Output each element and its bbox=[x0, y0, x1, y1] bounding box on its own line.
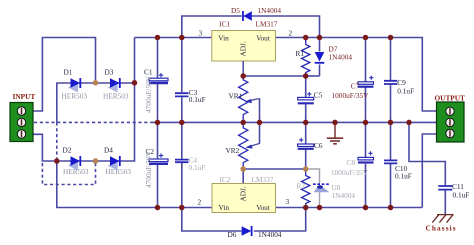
node bridge positive / D3 cathode bbox=[132, 80, 138, 86]
capacitor C1 4700uF/50V bbox=[149, 73, 168, 83]
svg-text:HER503: HER503 bbox=[103, 92, 129, 101]
svg-text:R1: R1 bbox=[296, 49, 305, 58]
wire negative rail left bbox=[57, 161, 212, 208]
node D2 anode / AC2 bbox=[54, 158, 60, 164]
wire C4 leads bbox=[181, 122, 183, 207]
resistor R2 bbox=[302, 169, 310, 208]
svg-text:0.1uF: 0.1uF bbox=[189, 95, 206, 104]
node ADJ1 / R1 / C5 bbox=[303, 73, 309, 79]
svg-text:D2: D2 bbox=[63, 146, 72, 155]
node -V rail / R2 / D6 bbox=[303, 205, 309, 211]
node -V rail / C2 bbox=[155, 205, 161, 211]
node ADJ2 / VR2 / IC2 ADJ bbox=[240, 166, 246, 172]
svg-text:R2: R2 bbox=[297, 181, 306, 190]
svg-text:D3: D3 bbox=[105, 67, 114, 76]
wire C2 leads bbox=[157, 122, 159, 207]
wire D1 anode vertical solid bbox=[56, 83, 58, 123]
svg-text:IC1: IC1 bbox=[219, 20, 230, 29]
node Vout rail / D5 / D7 bbox=[317, 35, 323, 41]
wire D6 loop bbox=[182, 208, 306, 232]
svg-text:C6: C6 bbox=[314, 141, 323, 150]
wire D7 leads bbox=[319, 38, 321, 77]
resistor R1 bbox=[302, 38, 310, 76]
svg-text:3: 3 bbox=[199, 29, 203, 38]
svg-text:C5: C5 bbox=[314, 91, 323, 100]
IC U1 LM317 box bbox=[212, 31, 276, 77]
svg-text:4700uF/50V: 4700uF/50V bbox=[144, 150, 153, 188]
svg-text:Vout: Vout bbox=[256, 34, 270, 43]
svg-text:0.1uF: 0.1uF bbox=[189, 163, 206, 172]
wire AC1 input top to bridge mid bbox=[33, 38, 96, 112]
capacitor C2 4700uF/50V bbox=[149, 153, 168, 163]
svg-text:HER503: HER503 bbox=[106, 167, 132, 176]
node ADJ1 / VR1 bbox=[240, 73, 246, 79]
node 0V / C1 / C2 bbox=[155, 120, 161, 126]
wire IC2 ADJ pin bbox=[242, 169, 244, 184]
capacitor C4 0.1uF bbox=[175, 160, 189, 163]
wire VR wiper vertical bbox=[259, 99, 261, 144]
connector J2 OUTPUT bbox=[437, 102, 465, 142]
svg-text:1N4004: 1N4004 bbox=[332, 191, 356, 200]
svg-text:Vin: Vin bbox=[219, 203, 230, 212]
node 0V / ground bbox=[332, 120, 338, 126]
diode D5 1N4004 bbox=[243, 11, 252, 21]
wire C7 leads bbox=[365, 38, 367, 123]
svg-text:0.1uF: 0.1uF bbox=[395, 171, 412, 180]
node 0V / C7 / C8 bbox=[363, 120, 369, 126]
svg-text:1N4004: 1N4004 bbox=[258, 6, 282, 15]
svg-text:D4: D4 bbox=[104, 146, 113, 155]
wire C3 leads bbox=[181, 38, 183, 123]
svg-text:C8: C8 bbox=[347, 158, 356, 167]
svg-text:3: 3 bbox=[286, 197, 290, 206]
wire Vin line bbox=[135, 37, 212, 39]
capacitor C11 0.1uF bbox=[438, 186, 452, 190]
chassis symbol bbox=[432, 215, 453, 223]
wire bridge positive vertical bbox=[121, 38, 135, 162]
wire negative rail right bbox=[276, 207, 423, 209]
node -V rail / C10 bbox=[388, 205, 394, 211]
capacitor C7 1000uF/35V bbox=[358, 76, 374, 87]
svg-text:ADJ.: ADJ. bbox=[239, 186, 248, 201]
node Vout rail / R1 bbox=[303, 35, 309, 41]
node Vout rail / C9 bbox=[388, 35, 394, 41]
svg-text:4700uF/50V: 4700uF/50V bbox=[144, 75, 153, 113]
svg-text:1N4004: 1N4004 bbox=[329, 52, 353, 61]
wire AC2 input bottom to D2 anode bbox=[33, 134, 54, 161]
node 0V / C11 branch bbox=[406, 120, 412, 126]
node ADJ2 / C6 / R2 bbox=[303, 166, 309, 172]
ground symbol bbox=[327, 122, 343, 143]
svg-text:LM317: LM317 bbox=[256, 20, 278, 29]
node Vout rail / C7 bbox=[363, 35, 369, 41]
svg-text:Chassis: Chassis bbox=[426, 224, 457, 233]
node 0V / C9 / C10 bbox=[388, 120, 394, 126]
IC U2 LM337 box bbox=[212, 184, 276, 213]
connector J1 INPUT bbox=[10, 103, 33, 142]
svg-text:LM337: LM337 bbox=[252, 175, 274, 184]
wire C9 leads bbox=[390, 38, 392, 123]
node 0V / C5 / C6 bbox=[303, 120, 309, 126]
svg-text:D5: D5 bbox=[231, 6, 240, 15]
svg-text:C7: C7 bbox=[351, 81, 360, 90]
potentiometer VR1 bbox=[239, 76, 260, 122]
svg-text:0.1uF: 0.1uF bbox=[397, 87, 414, 96]
capacitor C8 1000uF/35V bbox=[358, 151, 374, 162]
wire C6 leads bbox=[305, 122, 307, 169]
capacitor C10 0.1uF bbox=[384, 160, 397, 163]
diode D6 1N4004 bbox=[242, 226, 252, 236]
node 0V / VR1 / VR2 bbox=[240, 120, 246, 126]
svg-text:D1: D1 bbox=[64, 67, 73, 76]
svg-text:HER503: HER503 bbox=[63, 167, 89, 176]
wire C1 leads bbox=[157, 38, 159, 123]
capacitor C9 0.1uF bbox=[384, 81, 397, 84]
wire dashed vertical to D2 anode bbox=[56, 122, 58, 158]
svg-text:VR2: VR2 bbox=[226, 146, 240, 155]
capacitor C3 0.1uF bbox=[175, 93, 189, 96]
svg-text:2: 2 bbox=[289, 29, 293, 38]
svg-text:IC2: IC2 bbox=[220, 175, 231, 184]
node Vin rail / C1 bbox=[155, 35, 161, 41]
wire dashed bridge bypass bbox=[42, 163, 95, 185]
wire ADJ2 line bbox=[243, 168, 306, 170]
wire center-tap dashed bbox=[34, 121, 150, 123]
node -V rail / C8 bbox=[363, 205, 369, 211]
node -V rail / C4 / D6 bbox=[179, 205, 185, 211]
svg-text:VR1: VR1 bbox=[229, 92, 243, 101]
diode D1 HER503 bbox=[57, 78, 96, 92]
svg-text:ADJ.: ADJ. bbox=[239, 41, 248, 56]
svg-text:Vout: Vout bbox=[256, 203, 270, 212]
wire C8 leads bbox=[365, 122, 367, 207]
svg-text:2: 2 bbox=[198, 198, 202, 207]
svg-text:D6: D6 bbox=[228, 230, 237, 239]
diode D4 HER503 bbox=[96, 156, 121, 170]
svg-text:1N4004: 1N4004 bbox=[258, 230, 282, 239]
wire 0V rail bbox=[150, 121, 437, 123]
svg-text:Vin: Vin bbox=[218, 34, 229, 43]
svg-text:OUTPUT: OUTPUT bbox=[435, 93, 466, 102]
wire Vout line to output pin1 bbox=[276, 38, 437, 112]
capacitor C6 bbox=[298, 138, 314, 149]
wire C5 leads bbox=[305, 76, 307, 122]
potentiometer VR2 bbox=[239, 122, 260, 169]
node Vin rail / C3 / D5 bbox=[179, 35, 185, 41]
wire D5 top rail bbox=[182, 16, 320, 38]
wire ADJ1 line bbox=[243, 75, 306, 77]
svg-text:HER503: HER503 bbox=[62, 92, 88, 101]
node D1 cathode / D3 anode / AC1 bbox=[93, 80, 99, 86]
node 0V / wipers bbox=[257, 120, 263, 126]
svg-text:1000uF/35V: 1000uF/35V bbox=[331, 168, 369, 177]
svg-text:1000uF/35V: 1000uF/35V bbox=[332, 91, 370, 100]
diode D3 HER503 bbox=[96, 78, 135, 92]
node -V rail / U8 bbox=[317, 205, 323, 211]
diode U8 ghost 1N4004 bbox=[313, 184, 330, 192]
wire ADJ1 to D7 bbox=[306, 75, 320, 77]
wire C10 leads bbox=[390, 122, 392, 207]
wire ghost ADJ2 to U8 bbox=[306, 169, 320, 208]
svg-text:INPUT: INPUT bbox=[13, 92, 36, 101]
diode D2 HER503 bbox=[57, 156, 96, 170]
diode D7 1N4004 bbox=[315, 52, 325, 63]
svg-text:0.1uF: 0.1uF bbox=[453, 191, 470, 200]
svg-text:C1: C1 bbox=[144, 67, 153, 76]
wire output pin3 to negative rail bbox=[422, 134, 436, 208]
node 0V / C3 / C4 bbox=[179, 120, 185, 126]
capacitor C5 bbox=[298, 92, 314, 103]
wire 0V to C11 chassis bbox=[409, 122, 445, 214]
node D2 cathode / D4 anode bbox=[93, 158, 99, 164]
